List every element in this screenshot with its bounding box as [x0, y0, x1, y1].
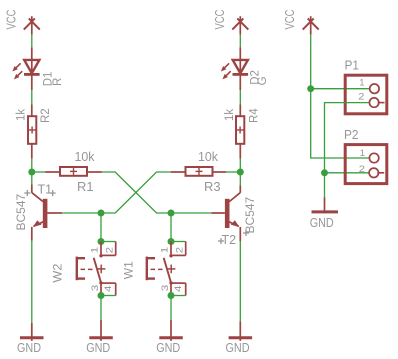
svg-text:R4: R4 [248, 108, 260, 123]
svg-text:1k: 1k [224, 109, 236, 121]
origin cross of BC547 label (T1) [24, 190, 30, 196]
node A junction [28, 169, 35, 176]
wire R4 to node B [239, 159, 241, 173]
svg-text:1: 1 [359, 77, 364, 88]
node T2 base junction [168, 210, 175, 217]
wire T2 base to switch W1 [170, 213, 172, 242]
svg-text:2: 2 [174, 247, 185, 254]
resistor R2 [28, 105, 36, 159]
node P2 junction [321, 169, 328, 176]
wire VCC1 to D1 [31, 35, 33, 48]
svg-text:GND: GND [17, 341, 41, 355]
svg-text:2: 2 [359, 164, 365, 175]
wire W1 pin1 to pin2 (top) [171, 241, 186, 243]
wire VCC3 down to P2 pin1 [311, 35, 369, 158]
svg-text:R2: R2 [40, 108, 52, 123]
wire T1 emitter to GND [31, 241, 33, 324]
wire W1 to GND [170, 296, 172, 321]
svg-text:GND: GND [310, 216, 334, 230]
wire D2 to R4 [239, 90, 241, 105]
svg-text:VCC: VCC [4, 10, 18, 30]
wire T2 emitter to GND [239, 241, 241, 322]
wire W2 to GND [100, 296, 102, 321]
connector P2 [345, 145, 387, 184]
svg-text:3: 3 [160, 285, 171, 292]
ground GND1 [20, 323, 44, 341]
svg-text:BC547: BC547 [14, 193, 28, 230]
switch W1 [147, 242, 186, 296]
origin cross of BC547 label (T2) [243, 230, 249, 236]
node W2 bottom junction [98, 292, 105, 299]
wire node A to R1 [32, 171, 45, 173]
wire VCC3 junction to P1 pin1 [311, 88, 370, 90]
svg-text:1k: 1k [15, 109, 27, 121]
LED D1 [12, 48, 39, 91]
wire D1 to R2 [31, 90, 33, 105]
svg-text:10k: 10k [75, 150, 96, 164]
svg-text:BC547: BC547 [243, 196, 257, 233]
node W1 bottom junction [168, 292, 175, 299]
wire T1 base to switch W2 [100, 213, 102, 242]
svg-text:2: 2 [104, 247, 115, 254]
svg-text:VCC: VCC [283, 10, 297, 30]
svg-text:R1: R1 [77, 180, 94, 194]
svg-text:2: 2 [358, 92, 364, 103]
wire R1 to T2 base (cross coupling diagonal) [102, 172, 212, 213]
node VCC3 junction [307, 85, 314, 92]
origin cross of T1 [50, 190, 56, 196]
svg-text:VCC: VCC [213, 10, 227, 30]
power symbol VCC (left rail) [24, 16, 40, 34]
wire W2 pin3 to pin4 (bottom) [101, 295, 116, 297]
svg-text:GND: GND [226, 341, 250, 355]
transistor T2 BC547 [212, 186, 241, 242]
origin cross of T2 [218, 238, 224, 244]
wire W2 pin1 to pin2 (top) [101, 241, 116, 243]
wire R3 to node B [226, 171, 240, 173]
svg-text:10k: 10k [198, 150, 219, 164]
svg-text:R: R [52, 78, 64, 86]
svg-text:P2: P2 [344, 128, 359, 142]
transistor T1 BC547 [32, 185, 62, 241]
svg-text:4: 4 [103, 286, 114, 293]
resistor R1 [45, 167, 102, 176]
svg-text:GND: GND [86, 341, 110, 355]
connector P1 [345, 75, 387, 114]
wire node B to T2 collector [239, 172, 241, 186]
resistor R3 [171, 167, 226, 176]
svg-text:R3: R3 [204, 180, 221, 194]
wire R2 to node A [31, 159, 33, 173]
power symbol VCC (connector rail) [303, 16, 319, 34]
wire P1 pin2 to P2 pin2 and GND [325, 103, 369, 198]
svg-text:P1: P1 [345, 59, 360, 73]
node T1 base junction [98, 210, 105, 217]
svg-text:W1: W1 [122, 261, 136, 279]
ground GND4 [229, 322, 253, 341]
ground GND5 [312, 198, 339, 214]
svg-text:3: 3 [90, 285, 101, 292]
power symbol VCC (right rail) [232, 16, 248, 34]
svg-text:T2: T2 [222, 233, 237, 247]
svg-text:1: 1 [89, 247, 100, 254]
svg-text:1: 1 [159, 247, 170, 254]
svg-text:GND: GND [156, 341, 180, 355]
wire W1 pin3 to pin4 (bottom) [171, 295, 186, 297]
svg-text:1: 1 [360, 148, 365, 159]
svg-text:G: G [257, 76, 269, 85]
svg-text:W2: W2 [51, 263, 65, 282]
node W1 top junction [168, 238, 175, 245]
node W2 top junction [98, 238, 105, 245]
wire VCC2 to D2 [239, 35, 241, 48]
node B junction [237, 169, 244, 176]
svg-text:4: 4 [173, 286, 184, 293]
switch W2 [77, 242, 116, 296]
LED D2 [221, 48, 248, 91]
ground GND2 [89, 320, 113, 341]
wire node A to T1 collector [31, 172, 33, 185]
svg-text:T1: T1 [38, 183, 53, 197]
wire R3 to T1 base (cross coupling diagonal) [62, 172, 171, 213]
wire junction to P2 pin2 [325, 172, 369, 174]
ground GND3 [159, 320, 183, 341]
resistor R4 [236, 105, 244, 159]
